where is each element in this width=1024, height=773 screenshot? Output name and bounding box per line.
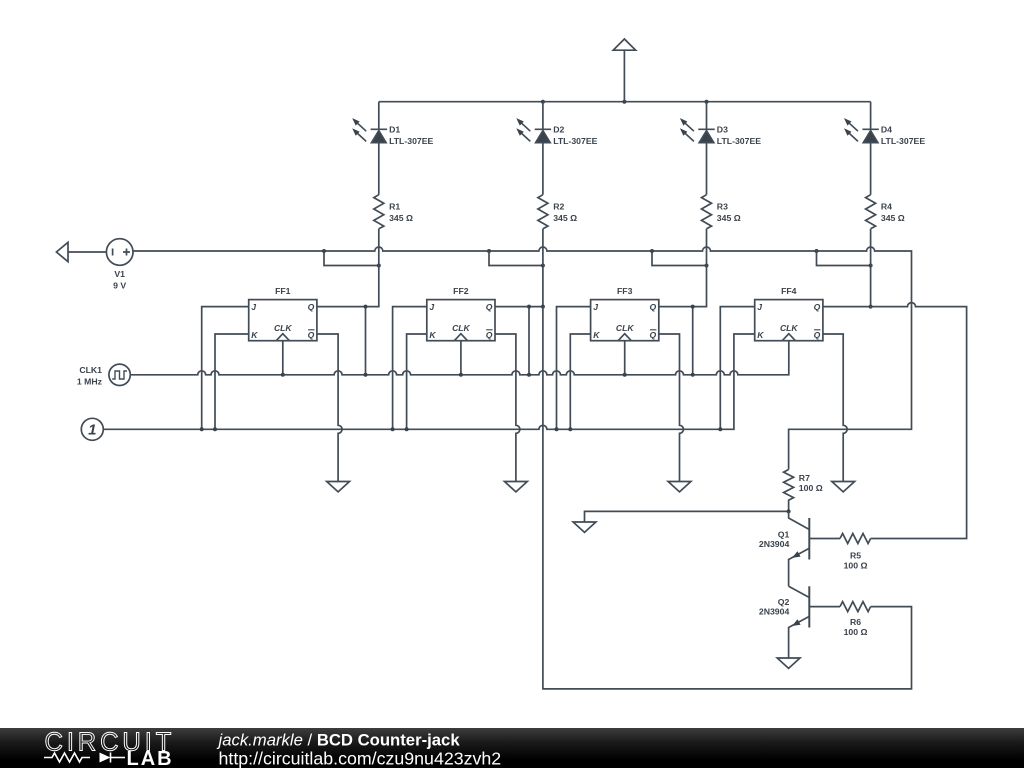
wire FF2 J input xyxy=(393,307,427,430)
wire FF1 Qbar to ground xyxy=(317,334,342,482)
svg-text:LTL-307EE: LTL-307EE xyxy=(881,136,925,146)
svg-text:Q: Q xyxy=(308,330,315,340)
wire Q2 column to R6 (bottom loop) xyxy=(543,307,912,689)
ground (FF3 Qbar) xyxy=(668,482,691,492)
resistor R3 xyxy=(702,195,712,229)
svg-text:K: K xyxy=(757,330,764,340)
svg-text:LAB: LAB xyxy=(127,748,174,768)
svg-text:K: K xyxy=(429,330,436,340)
svg-text:345 Ω: 345 Ω xyxy=(717,213,741,223)
svg-text:1: 1 xyxy=(88,422,96,439)
wire FF2 CLK stub xyxy=(460,341,462,375)
voltage source V1 xyxy=(106,239,133,266)
wire FF1 CLK stub xyxy=(282,341,284,375)
svg-text:2N3904: 2N3904 xyxy=(759,607,790,617)
svg-text:R1: R1 xyxy=(389,202,400,212)
wire arrow to V1 xyxy=(68,251,106,253)
svg-text:FF2: FF2 xyxy=(453,286,469,296)
wire top 9V rail xyxy=(379,101,871,103)
resistor R7 xyxy=(784,470,794,512)
wire Q4 to R5 via right side xyxy=(823,303,967,539)
node rail junction dots xyxy=(541,100,709,104)
wire Q3 to CLK bus xyxy=(692,307,694,375)
LED D3 xyxy=(698,129,714,142)
clock source CLK1 xyxy=(109,364,130,385)
svg-text:CLK: CLK xyxy=(274,323,292,333)
label CLK1 1MHz xyxy=(77,365,103,387)
svg-text:CLK: CLK xyxy=(452,323,470,333)
wire FF3 Qbar to ground xyxy=(659,334,684,482)
resistor R5 xyxy=(840,534,871,544)
wire jog rail2 to R1 column xyxy=(324,251,379,266)
resistor R6 xyxy=(840,602,871,612)
svg-text:D1: D1 xyxy=(389,124,400,134)
svg-text:LTL-307EE: LTL-307EE xyxy=(553,136,597,146)
wire R2 down to FF2 Q xyxy=(495,229,543,307)
svg-text:Q: Q xyxy=(814,302,821,312)
svg-text:100 Ω: 100 Ω xyxy=(799,483,823,493)
wire FF4 Qbar to ground xyxy=(823,334,847,482)
LED D3 light arrows xyxy=(685,123,694,141)
svg-text:345 Ω: 345 Ω xyxy=(389,213,413,223)
transistor Q2 xyxy=(789,586,840,658)
wire LED to R3 xyxy=(706,143,708,195)
svg-text:J: J xyxy=(429,302,434,312)
wire rail to LED D1 xyxy=(378,102,380,130)
svg-text:345 Ω: 345 Ω xyxy=(553,213,577,223)
svg-text:R6: R6 xyxy=(850,617,861,627)
wire LED to R4 xyxy=(870,143,872,195)
label R3 345 xyxy=(717,202,741,224)
wire FF3 K input xyxy=(570,334,590,429)
LED D2 light arrows xyxy=(522,123,531,141)
svg-text:jack.markle / BCD Counter-jack: jack.markle / BCD Counter-jack xyxy=(217,730,461,749)
LED D1 xyxy=(371,129,387,142)
svg-text:D2: D2 xyxy=(553,124,564,134)
label R4 345 xyxy=(881,202,905,224)
wire FF1 J input xyxy=(202,307,249,430)
svg-text:K: K xyxy=(593,330,600,340)
JK flip-flop FF4 xyxy=(755,300,823,341)
LED D4 light arrows xyxy=(849,123,858,141)
svg-text:100 Ω: 100 Ω xyxy=(844,561,868,571)
ground (FF4 Qbar) xyxy=(832,482,855,492)
svg-text:R3: R3 xyxy=(717,202,728,212)
svg-text:Q2: Q2 xyxy=(778,597,790,607)
svg-text:D3: D3 xyxy=(717,124,728,134)
ground (R7 line) xyxy=(573,522,596,532)
net flag arrow (left) xyxy=(56,242,68,261)
svg-text:Q: Q xyxy=(486,330,493,340)
wire CLK bus xyxy=(130,341,789,375)
svg-text:R4: R4 xyxy=(881,202,892,212)
svg-text:1 MHz: 1 MHz xyxy=(77,377,103,387)
label D3 LTL-307EE xyxy=(717,124,761,146)
label R5 100 xyxy=(844,551,868,571)
LED D2 xyxy=(535,129,551,142)
JK flip-flop FF3 xyxy=(591,300,659,341)
label D1 LTL-307EE xyxy=(389,124,433,146)
wire jog rail2 to R2 column xyxy=(489,251,543,266)
label V1 9V xyxy=(113,269,126,290)
svg-text:FF3: FF3 xyxy=(617,286,633,296)
svg-text:CLK: CLK xyxy=(616,323,634,333)
svg-text:J: J xyxy=(251,302,256,312)
JK flip-flop FF1 xyxy=(249,300,317,341)
svg-text:K: K xyxy=(251,330,258,340)
power flag (up arrow) xyxy=(613,39,635,102)
svg-text:Q: Q xyxy=(814,330,821,340)
svg-text:Q: Q xyxy=(650,330,657,340)
label R6 100 xyxy=(844,617,868,637)
ground (FF1 Qbar) xyxy=(327,482,350,492)
transistor Q1 xyxy=(789,511,840,586)
label R7 100 xyxy=(799,473,823,493)
wire jog rail2 to R3 column xyxy=(652,251,707,266)
svg-text:Q: Q xyxy=(308,302,315,312)
svg-text:R2: R2 xyxy=(553,202,564,212)
resistor R1 xyxy=(374,195,384,229)
wire node-1 bus xyxy=(103,334,754,429)
svg-text:CLK: CLK xyxy=(780,323,798,333)
svg-text:J: J xyxy=(757,302,762,312)
wire LED to R1 xyxy=(378,143,380,195)
wire R3 down to FF3 Q xyxy=(659,229,707,307)
node bus-1 dots xyxy=(200,427,723,431)
svg-text:Q1: Q1 xyxy=(778,530,790,540)
wire LED to R2 xyxy=(542,143,544,195)
LED D4 xyxy=(862,129,878,142)
svg-text:Q: Q xyxy=(486,302,493,312)
wire FF2 Qbar to ground xyxy=(495,334,520,482)
rail2 junction dots xyxy=(322,249,819,253)
LED D1 light arrows xyxy=(358,123,367,141)
wire rail to LED D4 xyxy=(870,102,872,130)
wire base line to ground xyxy=(585,511,789,522)
svg-text:R5: R5 xyxy=(850,551,861,561)
label Q1 2N3904 xyxy=(759,530,790,550)
wire jog rail2 to R4 column xyxy=(817,251,871,266)
resistor R4 xyxy=(866,195,876,229)
label D4 LTL-307EE xyxy=(881,124,925,146)
wire rail to LED D2 xyxy=(542,102,544,130)
wire FF3 CLK stub xyxy=(624,341,626,375)
svg-text:LTL-307EE: LTL-307EE xyxy=(389,136,433,146)
node Q-wire junction dots xyxy=(364,305,873,309)
svg-text:2N3904: 2N3904 xyxy=(759,539,790,549)
svg-text:http://circuitlab.com/czu9nu42: http://circuitlab.com/czu9nu423zvh2 xyxy=(219,749,502,769)
JK flip-flop FF2 xyxy=(427,300,495,341)
label R1 345 xyxy=(389,202,413,224)
label R2 345 xyxy=(553,202,577,224)
wire FF3 J input xyxy=(557,307,591,430)
svg-text:CLK1: CLK1 xyxy=(79,365,102,375)
wire rail to LED D3 xyxy=(706,102,708,130)
svg-text:D4: D4 xyxy=(881,124,892,134)
wire Q2 to CLK bus xyxy=(528,307,530,375)
resistor R2 xyxy=(538,195,548,229)
net flag node 1 xyxy=(81,418,103,440)
svg-text:FF4: FF4 xyxy=(781,286,797,296)
svg-text:R7: R7 xyxy=(799,473,810,483)
svg-text:345 Ω: 345 Ω xyxy=(881,213,905,223)
svg-text:J: J xyxy=(593,302,598,312)
wire rail2 from V1 with hops, corner down to transistor supply xyxy=(133,247,912,470)
label Q2 2N3904 xyxy=(759,597,790,617)
svg-text:LTL-307EE: LTL-307EE xyxy=(717,136,761,146)
svg-text:FF1: FF1 xyxy=(275,286,291,296)
node CLK bus dots xyxy=(281,373,695,377)
ground (FF2 Qbar) xyxy=(505,482,528,492)
svg-text:V1: V1 xyxy=(114,269,125,279)
ground (Q2 emitter) xyxy=(777,658,800,668)
wire R1 down to FF1 Q xyxy=(317,229,379,307)
wire FF1 K input xyxy=(215,334,249,429)
svg-text:9 V: 9 V xyxy=(113,280,126,290)
label D2 LTL-307EE xyxy=(553,124,597,146)
svg-text:Q: Q xyxy=(650,302,657,312)
wire FF2 K input xyxy=(407,334,427,429)
wire R4 down to Q4 net xyxy=(870,229,872,307)
svg-text:100 Ω: 100 Ω xyxy=(844,627,868,637)
wire Q1 to CLK bus xyxy=(365,307,367,375)
wire FF4 J input xyxy=(720,307,754,430)
